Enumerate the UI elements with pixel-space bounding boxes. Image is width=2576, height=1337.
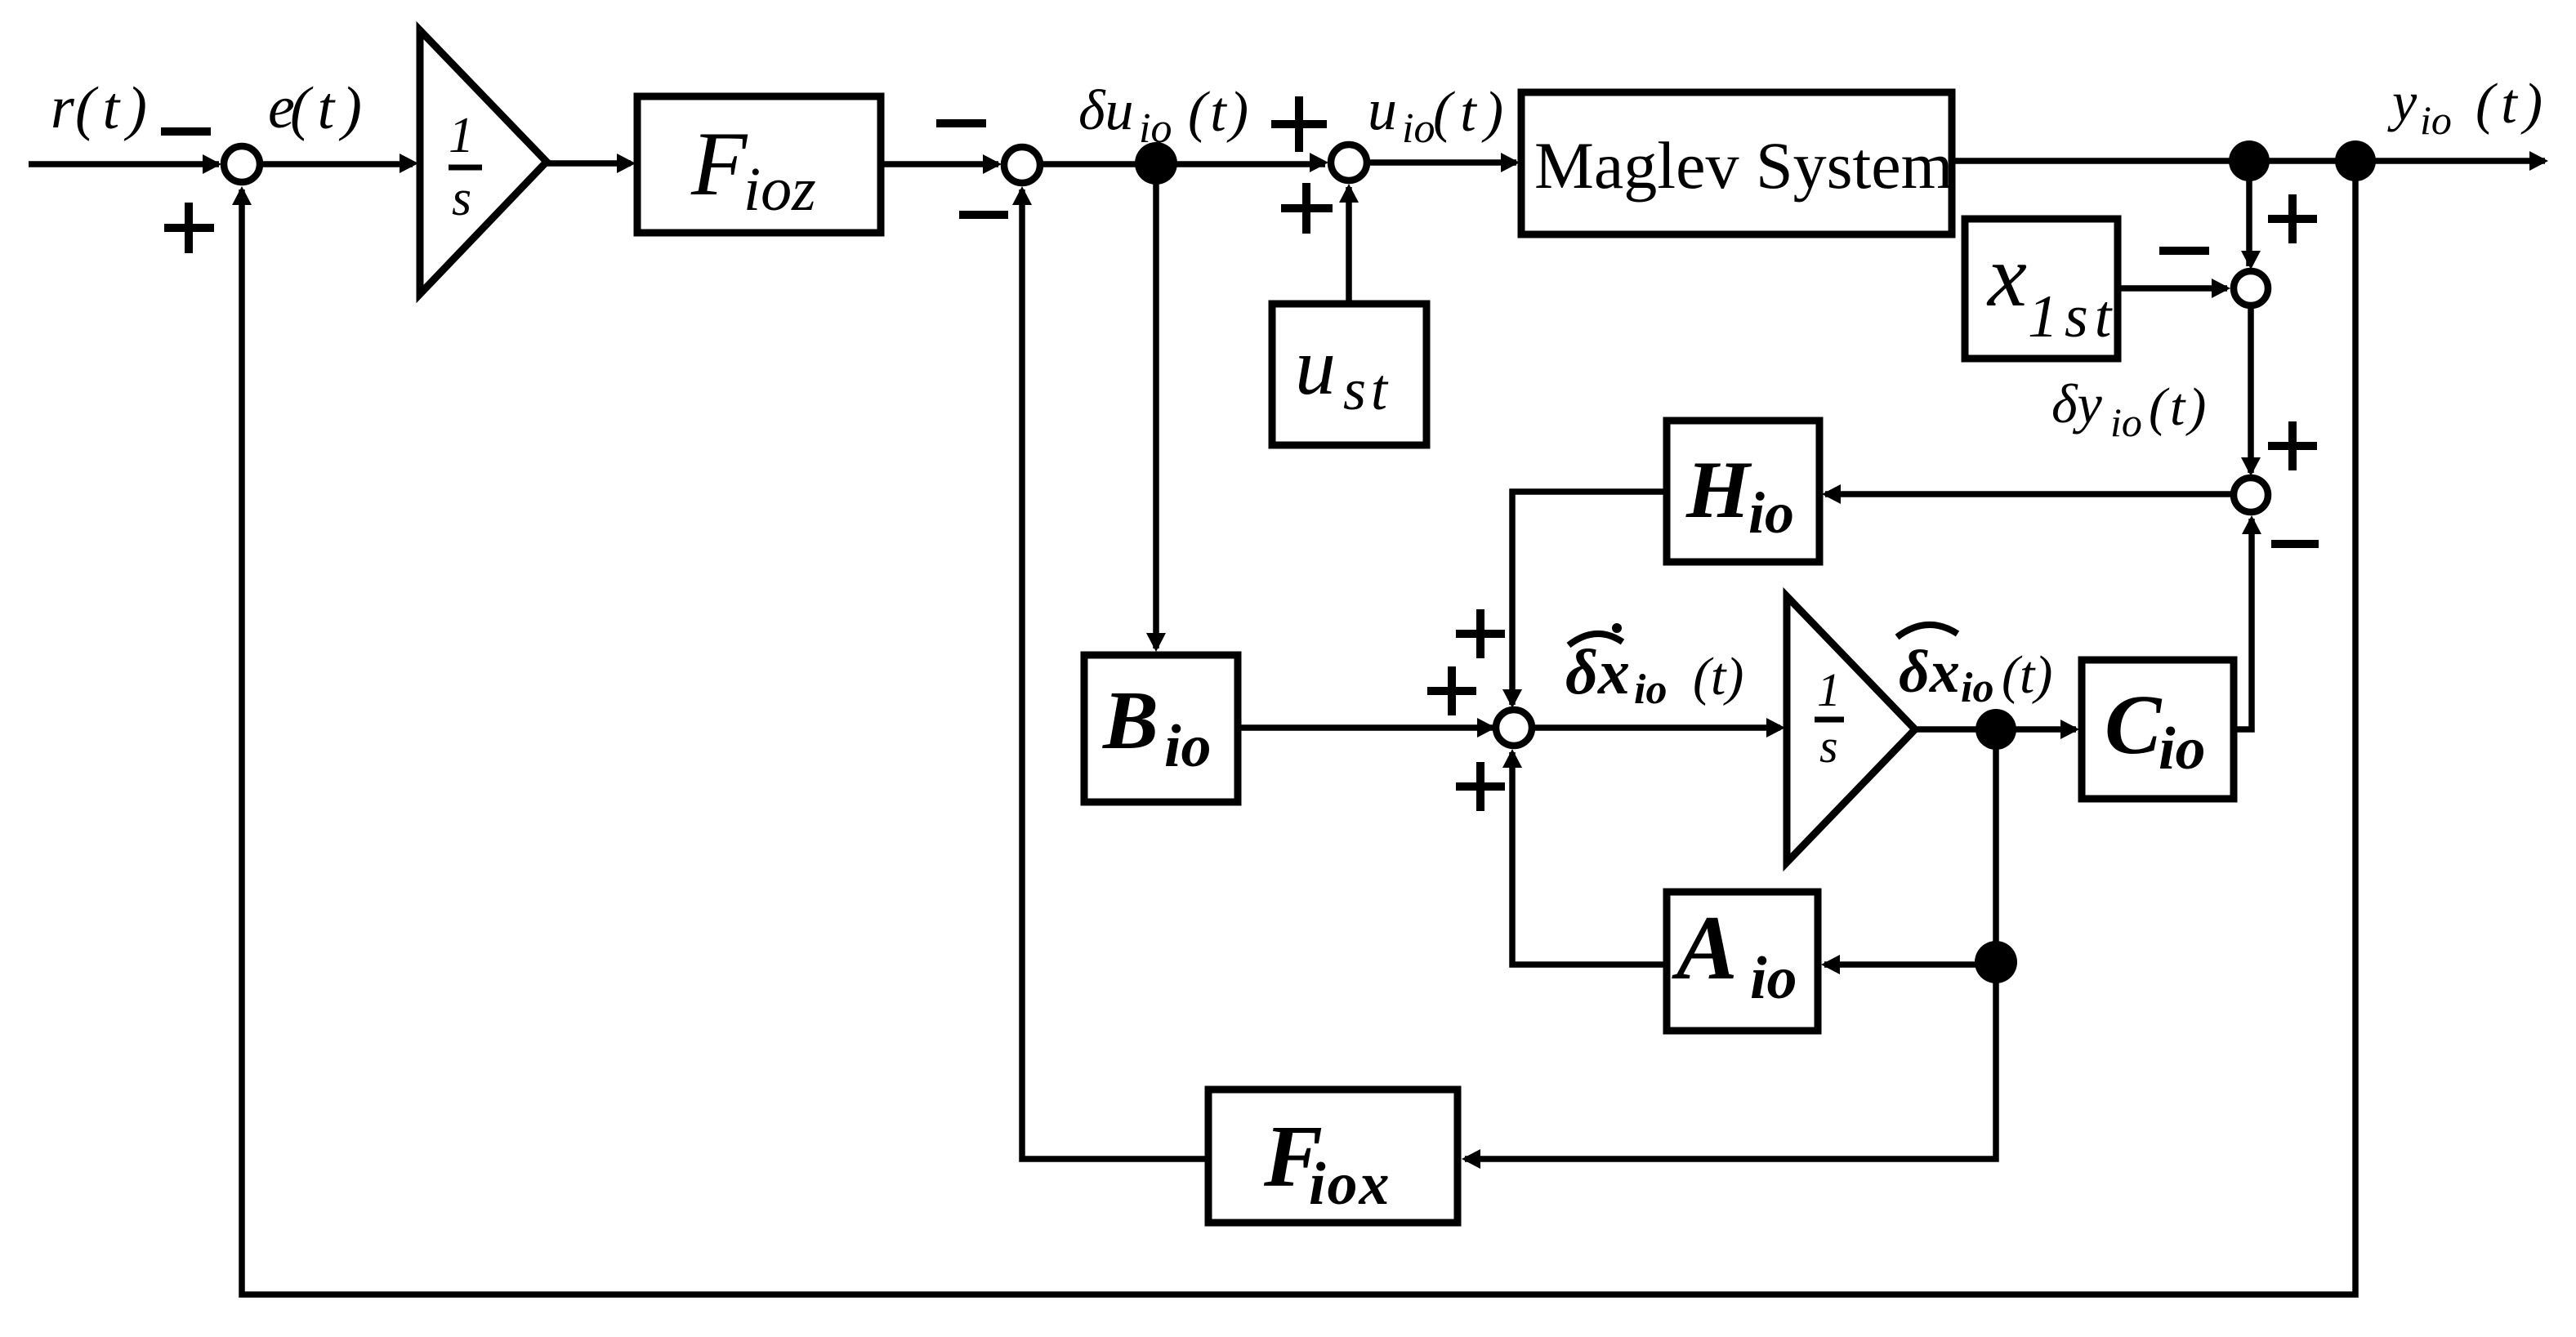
arrowhead into integrator 2 bbox=[1766, 718, 1785, 738]
summing junction S1 bbox=[224, 146, 260, 182]
wire x1st to S4 bbox=[2118, 285, 2227, 292]
svg-text:io: io bbox=[1750, 945, 1797, 1012]
svg-text:io: io bbox=[2159, 715, 2206, 782]
wire Aio to S6 bbox=[1512, 752, 1667, 965]
arrowhead up into S1 from below bbox=[232, 186, 252, 205]
svg-text:H: H bbox=[1685, 444, 1752, 535]
wire S5 to Hio bbox=[1825, 491, 2234, 497]
node dot D1 bbox=[1135, 142, 1177, 185]
svg-text:B: B bbox=[1102, 675, 1159, 767]
node dot D5 bbox=[1975, 941, 2017, 983]
wire Maglev to output bbox=[1952, 158, 2545, 164]
arrowhead left into Hio bbox=[1822, 484, 1841, 504]
block ust bbox=[1272, 304, 1426, 445]
label delta-u_io(t) bbox=[1078, 79, 1252, 152]
integrator triangle 1 bbox=[420, 30, 547, 294]
svg-text:iox: iox bbox=[1309, 1151, 1391, 1218]
minus sign below S5 bbox=[2271, 540, 2319, 548]
minus sign left of S4 bbox=[2159, 247, 2209, 255]
arrowhead into S4 from x1st bbox=[2212, 279, 2230, 298]
arrowhead into S1 bbox=[203, 154, 221, 174]
wire Fioz to S2 bbox=[881, 161, 998, 167]
plus sign above S5 bbox=[2268, 442, 2317, 450]
summing junction S3 bbox=[1331, 145, 1367, 180]
wire S3 to Maglev bbox=[1368, 159, 1516, 166]
svg-text:io: io bbox=[1402, 105, 1435, 152]
wire integrator apex to Fioz bbox=[544, 160, 631, 167]
svg-text:δu: δu bbox=[1078, 79, 1134, 142]
plus sign 3 below S6 bbox=[1456, 782, 1505, 791]
svg-text:1st: 1st bbox=[2028, 283, 2118, 350]
wire node D4 down to Fiox corner bbox=[1465, 729, 1996, 1159]
label 1/s in integrator 2 bbox=[1815, 663, 1844, 773]
arrowhead into S3 bbox=[1310, 153, 1328, 172]
svg-text:Maglev System: Maglev System bbox=[1534, 128, 1953, 203]
arrowhead into Cio bbox=[2060, 720, 2079, 739]
svg-text:st: st bbox=[1343, 357, 1392, 422]
label delta-y_io(t) bbox=[2051, 372, 2209, 445]
svg-text:y: y bbox=[2387, 70, 2418, 132]
svg-text:(t): (t) bbox=[290, 75, 369, 142]
svg-text:io: io bbox=[2420, 97, 2452, 143]
arrowhead into S2 bbox=[983, 154, 1002, 174]
label Bio bbox=[1102, 675, 1212, 780]
label 1/s in integrator 1 bbox=[449, 108, 482, 226]
svg-text:s: s bbox=[452, 171, 471, 226]
block Fioz bbox=[637, 96, 881, 233]
plus sign 1 at S6 bbox=[1456, 630, 1505, 638]
minus sign below before S2 bbox=[959, 211, 1008, 219]
wire bottom feedback rail bbox=[242, 161, 2355, 1295]
wire input r(t) bbox=[29, 161, 219, 167]
wire Bio to S6 bbox=[1238, 724, 1493, 731]
svg-text:io: io bbox=[1961, 665, 1993, 711]
svg-text:A: A bbox=[1672, 898, 1738, 999]
minus sign above before S2 bbox=[936, 119, 986, 127]
svg-text:u: u bbox=[1368, 77, 1397, 142]
arrowhead down into S4 bbox=[2241, 251, 2261, 270]
node dot D3 bbox=[2335, 140, 2376, 181]
wire S1 to integrator bbox=[261, 161, 413, 167]
label Aio bbox=[1672, 898, 1797, 1012]
wire Hio to S6 bbox=[1512, 492, 1667, 705]
svg-text:1: 1 bbox=[449, 108, 474, 163]
svg-text:(t): (t) bbox=[2149, 377, 2209, 437]
arrowhead output yio bbox=[2529, 151, 2548, 171]
plus sign above S4 bbox=[2268, 215, 2317, 223]
wire ust to S3 bbox=[1346, 187, 1352, 304]
label yio(t) bbox=[2387, 70, 2549, 143]
block Maglev System bbox=[1521, 92, 1952, 234]
label Hio bbox=[1685, 444, 1794, 546]
svg-text:δy: δy bbox=[2051, 372, 2103, 435]
block x1st bbox=[1965, 219, 2118, 359]
svg-text:io: io bbox=[1164, 713, 1212, 780]
wire Fiox to S2 bbox=[1022, 189, 1208, 1159]
arrowhead into Fioz bbox=[617, 154, 636, 173]
arrowhead left into Fiox bbox=[1462, 1149, 1480, 1169]
svg-text:s: s bbox=[1819, 720, 1838, 773]
svg-text:(t): (t) bbox=[1433, 81, 1511, 144]
svg-text:ioz: ioz bbox=[743, 155, 816, 224]
svg-text:(t): (t) bbox=[2476, 73, 2549, 136]
wire S6 to integrator 2 bbox=[1534, 724, 1780, 731]
wire S4 to S5 bbox=[2248, 307, 2254, 473]
label Fiox bbox=[1263, 1108, 1391, 1218]
block Cio bbox=[2082, 660, 2234, 799]
block Fiox bbox=[1208, 1090, 1458, 1223]
arrowhead up into S6 from Aio bbox=[1502, 749, 1522, 768]
integrator triangle 2 bbox=[1787, 596, 1915, 862]
arrowhead into S6 from Bio bbox=[1477, 718, 1496, 738]
node dot D2 bbox=[2229, 140, 2270, 181]
label delta-x-hat io(t) at apex bbox=[1897, 625, 2052, 711]
svg-text:x: x bbox=[1986, 228, 2027, 325]
arrowhead left into Aio bbox=[1821, 955, 1840, 974]
plus sign before S3 bbox=[1271, 120, 1327, 128]
wire integrator 2 apex to node D4 bbox=[1913, 726, 2076, 733]
svg-text:δx: δx bbox=[1565, 636, 1630, 707]
arrowhead down into S6 from Hio bbox=[1502, 689, 1522, 708]
summing junction S2 bbox=[1004, 147, 1040, 183]
svg-text:F: F bbox=[690, 114, 748, 215]
svg-text:(t): (t) bbox=[1188, 81, 1252, 144]
minus sign at r(t) bbox=[161, 127, 211, 136]
wire node to Bio bbox=[1153, 163, 1159, 648]
svg-text:io: io bbox=[2110, 399, 2142, 445]
wire node D5 to Aio bbox=[1824, 961, 1996, 968]
svg-text:r: r bbox=[51, 74, 75, 141]
svg-text:io: io bbox=[1748, 480, 1794, 546]
summing junction S5 bbox=[2234, 478, 2268, 512]
arrowhead up into S5 from Cio bbox=[2242, 515, 2261, 534]
node dot D4 bbox=[1976, 709, 2016, 750]
wire Cio feedback up to S5 bbox=[2234, 519, 2252, 729]
svg-text:(t): (t) bbox=[75, 75, 154, 142]
svg-text:io: io bbox=[1634, 666, 1667, 713]
label x1st bbox=[1986, 228, 2118, 350]
arrowhead into integrator 1 bbox=[400, 154, 418, 173]
svg-text:δx: δx bbox=[1899, 639, 1960, 706]
wire S2 to S3 through node bbox=[1041, 161, 1325, 167]
label e(t) bbox=[268, 74, 369, 142]
wire node D2 down to S4 bbox=[2246, 161, 2252, 266]
plus sign below S1 bbox=[164, 224, 214, 232]
block Aio bbox=[1667, 892, 1818, 1031]
svg-text:io: io bbox=[1139, 105, 1172, 152]
arrowhead into Maglev bbox=[1501, 153, 1520, 172]
svg-text:(t): (t) bbox=[2002, 645, 2052, 705]
summing junction S6 bbox=[1496, 710, 1532, 746]
svg-text:1: 1 bbox=[1817, 663, 1841, 716]
label delta-xdot-hat io (t) bbox=[1565, 623, 1743, 713]
label u_io(t) bbox=[1368, 77, 1511, 152]
summing junction S4 bbox=[2234, 271, 2268, 305]
label ust bbox=[1295, 321, 1392, 422]
svg-text:C: C bbox=[2105, 678, 2163, 772]
plus sign 2 at S6 bbox=[1427, 687, 1476, 695]
block Hio bbox=[1667, 421, 1819, 562]
arrowhead up into S3 from ust bbox=[1339, 184, 1359, 203]
svg-text:u: u bbox=[1295, 321, 1336, 412]
svg-text:(t): (t) bbox=[1693, 647, 1743, 706]
block Bio bbox=[1084, 655, 1238, 802]
label r(t) bbox=[51, 74, 154, 142]
label Fioz bbox=[690, 114, 816, 224]
arrowhead up into S2 from below bbox=[1012, 186, 1032, 205]
label Cio bbox=[2105, 678, 2206, 782]
arrowhead down into Bio bbox=[1146, 633, 1166, 652]
arrowhead down into S5 bbox=[2241, 457, 2261, 476]
plus sign below S3 bbox=[1281, 204, 1333, 212]
